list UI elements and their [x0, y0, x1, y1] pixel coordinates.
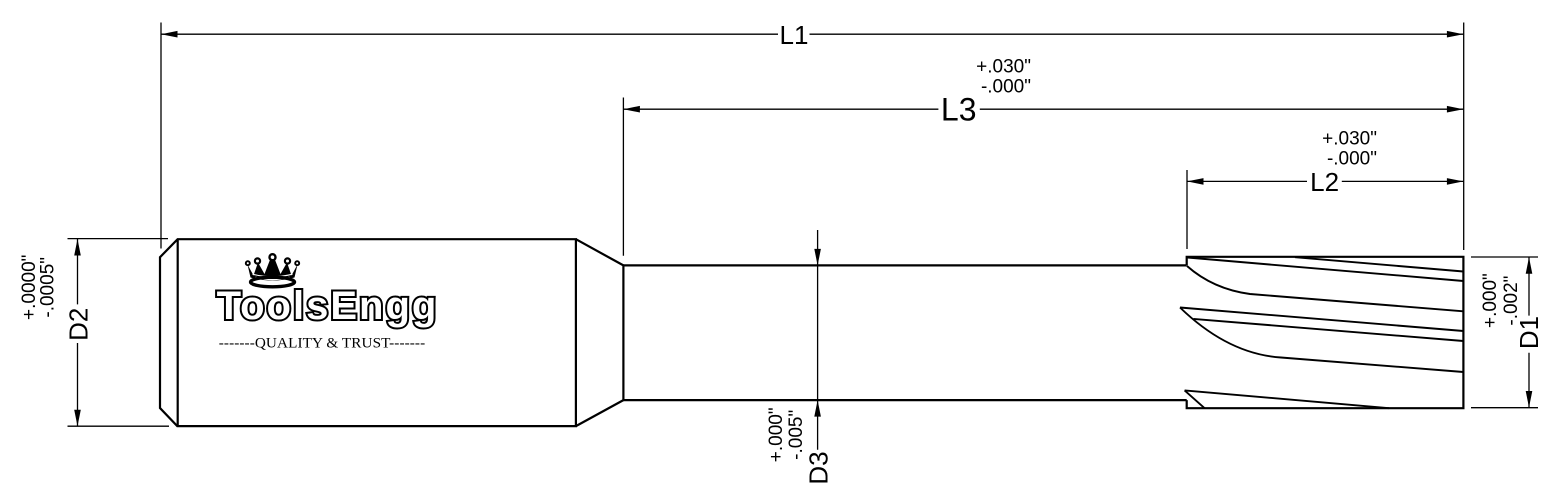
- svg-text:ToolsEngg: ToolsEngg: [217, 284, 439, 328]
- svg-text:-.002": -.002": [1501, 276, 1522, 326]
- svg-text:+.000": +.000": [766, 407, 787, 462]
- svg-text:-.0005": -.0005": [38, 257, 59, 318]
- svg-text:-.005": -.005": [786, 410, 807, 460]
- svg-text:L1: L1: [780, 20, 809, 50]
- svg-text:+.030": +.030": [1322, 129, 1377, 150]
- svg-text:D3: D3: [803, 451, 833, 484]
- svg-text:+.000": +.000": [1480, 273, 1501, 328]
- svg-text:-------QUALITY & TRUST-------: -------QUALITY & TRUST-------: [219, 335, 425, 352]
- svg-text:-.000": -.000": [981, 77, 1031, 98]
- svg-text:L2: L2: [1310, 167, 1339, 197]
- svg-text:L3: L3: [941, 91, 977, 127]
- svg-text:+.030": +.030": [976, 56, 1031, 77]
- svg-text:-.000": -.000": [1327, 149, 1377, 170]
- svg-text:D2: D2: [64, 308, 94, 341]
